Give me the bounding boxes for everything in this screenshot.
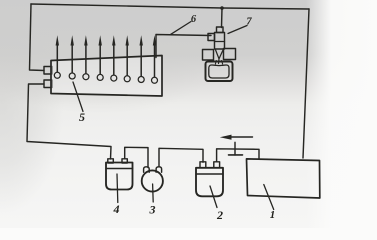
manifold circle 2 (69, 73, 75, 79)
leader line label 4 (116, 174, 119, 203)
wire: from block 5 lower tab, down left side and along bottom to filter 4 (27, 84, 111, 159)
filter 2 body (196, 168, 223, 197)
wire: filter 4 to pump 3 (125, 147, 148, 167)
arrow 8 (153, 35, 156, 77)
wire: main loop left side upper, into block 5 upper tab (30, 4, 45, 71)
arrow 4 (99, 35, 102, 74)
manifold circle 6 (124, 76, 130, 82)
manifold circle 3 (83, 74, 89, 80)
arrow 5 (112, 35, 115, 75)
pump 3 body circle (142, 170, 163, 191)
pipe 6 from block 5 to injector 7 (156, 35, 211, 58)
injector 7 bracket left block (203, 50, 214, 61)
block 5 upper tab (44, 67, 52, 75)
injector 7 body (215, 33, 225, 50)
injector 7 bracket right block (224, 49, 236, 60)
injector 7 nozzle tip stream (218, 59, 221, 64)
wire: main loop right side down to tank 1 (303, 9, 309, 158)
breather T symbol bar (229, 154, 243, 156)
wire: pump 3 to filter 2 (159, 148, 203, 167)
svg-text:3: 3 (149, 203, 156, 217)
svg-text:4: 4 (113, 202, 120, 216)
pump 3 right bump (156, 167, 162, 173)
leader line label 5 (73, 82, 83, 112)
block 5 lower tab (44, 80, 52, 88)
pump 3 left bump (144, 167, 150, 173)
leader line label 1 (264, 185, 274, 210)
tank 1 body (247, 159, 320, 198)
leader line label 7 (228, 26, 247, 34)
arrow 1 (56, 35, 59, 72)
wire: drop from top line to injector 7 (221, 8, 224, 28)
manifold circle 4 (97, 74, 103, 80)
injector 7 cap (217, 27, 224, 33)
svg-text:2: 2 (216, 208, 223, 222)
splash mark right of tip (222, 61, 223, 65)
leader line label 3 (152, 184, 155, 202)
manifold 5 circles and arrows (54, 72, 157, 83)
cup under injector outer wall (206, 62, 233, 82)
manifold circle 5 (111, 75, 117, 81)
wire: main loop top line (31, 4, 309, 9)
block 5 body (51, 56, 162, 97)
arrow 2 (71, 35, 74, 73)
flow arrow head (220, 135, 232, 140)
filter 4 lid line (106, 168, 133, 170)
svg-text:7: 7 (246, 17, 252, 28)
manifold circle 1 (54, 72, 60, 78)
wire: filter 2 to tank 1 (217, 149, 259, 162)
arrow 6 (126, 35, 129, 76)
injector 7 nozzle cone (215, 49, 223, 59)
filter 2 right nipple (214, 162, 220, 168)
filter 2 lid line (196, 173, 223, 175)
flow arrow shaft (226, 136, 253, 138)
svg-text:5: 5 (79, 110, 85, 124)
filter 4 body (106, 163, 133, 190)
injector 7 body inner line (215, 41, 225, 43)
cup liquid inner line (209, 65, 229, 78)
manifold circle 8 (152, 77, 158, 83)
injector 7 left inlet tab (208, 34, 215, 41)
splash mark left of tip (214, 61, 217, 65)
arrow 7 (140, 35, 143, 76)
breather T symbol stem (234, 142, 236, 155)
filter 2 left nipple (200, 162, 206, 168)
filter 4 left nipple (108, 159, 114, 163)
filter 4 right nipple (122, 159, 127, 163)
arrow 3 (84, 35, 87, 73)
junction dot at injector drop (220, 6, 224, 10)
leader line label 2 (210, 186, 217, 208)
svg-text:1: 1 (270, 209, 276, 221)
manifold circle 7 (138, 77, 144, 83)
leader line label 6 (170, 22, 191, 35)
svg-text:6: 6 (191, 14, 197, 25)
